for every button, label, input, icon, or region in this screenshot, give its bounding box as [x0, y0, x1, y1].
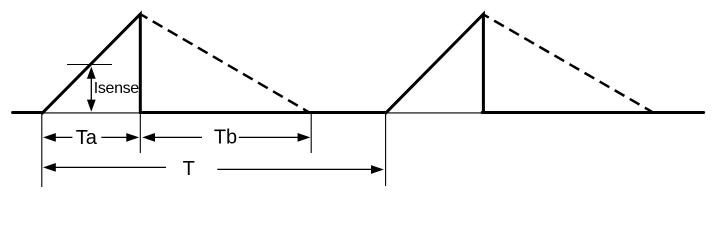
wire dashed inductor-current decay 1	[142, 15, 309, 112]
wire dashed inductor-current decay 2	[484, 15, 652, 112]
wire extension line at end of Tb	[310, 113, 312, 153]
svg-text:T: T	[183, 158, 195, 180]
wire extension line at first peak	[139, 114, 141, 154]
wire baseline segment left (zero current before first ramp)	[13, 111, 43, 114]
wire ramp 1 rising edge and vertical fall (Isense waveform pulse 1)	[42, 14, 141, 114]
dimension arrow T (full period)	[43, 163, 384, 174]
svg-text:Tb: Tb	[214, 127, 237, 149]
dimension arrow Ta	[43, 133, 139, 142]
svg-text:Isense: Isense	[94, 80, 139, 97]
node peak-level tick mark for Isense measurement	[67, 64, 112, 66]
wire baseline segment middle (zero current between pulses)	[139, 111, 386, 114]
svg-text:Ta: Ta	[76, 127, 98, 149]
wire extension line at second ramp start (period end)	[385, 113, 387, 186]
wire thin time-axis under first triangle	[42, 112, 140, 114]
dimension arrow Tb	[142, 133, 310, 142]
wire ramp 2 rising edge and vertical fall (Isense waveform pulse 2)	[385, 14, 483, 114]
wire baseline segment right (zero current after second pulse)	[482, 111, 703, 114]
wire thin time-axis under second triangle	[385, 112, 483, 114]
wire extension line at first ramp start	[41, 113, 43, 187]
dimension arrow Isense (vertical double-headed)	[87, 67, 96, 112]
